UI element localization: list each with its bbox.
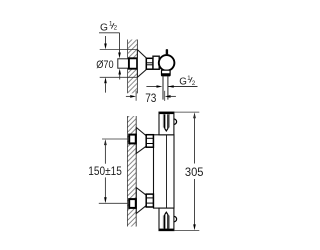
body circle (end view of mixer body) <box>159 55 175 71</box>
svg-text:G: G <box>100 23 108 34</box>
dimension 150±15: top extension line <box>102 138 129 140</box>
label G1/2 (right, outlet thread) <box>179 76 196 88</box>
svg-text:G: G <box>179 76 187 87</box>
dia 70 top extension line <box>100 49 138 51</box>
top inlet: hex nut <box>129 135 136 144</box>
dia 70 dimension: top arrow <box>104 36 107 49</box>
top inlet: knurled ring <box>146 135 153 148</box>
dimension 305: bottom extension line <box>174 230 199 232</box>
dia 70 bottom extension line <box>100 76 138 78</box>
socket piece (side view) <box>153 56 160 69</box>
dimension 73: wall extension line <box>135 91 137 101</box>
leader underline (top left G1/2) <box>99 32 120 34</box>
knurled ring (side view) <box>146 58 153 69</box>
dimension 305: top extension line <box>174 111 199 113</box>
escutcheon cone (side view) <box>137 50 146 78</box>
side knob bump (top handle) <box>174 119 177 124</box>
side knob bump (bottom handle) <box>174 216 177 221</box>
outlet collar nut <box>161 70 170 76</box>
up arrow to inlet pipe bottom edge <box>118 69 121 80</box>
dimension 150±15: dim line + arrows <box>104 139 107 203</box>
svg-text:305: 305 <box>185 165 204 179</box>
union hex nut (in wall) <box>129 58 137 68</box>
outlet pipe (shower outlet, downward) <box>163 76 168 100</box>
svg-text:2: 2 <box>114 24 118 31</box>
leader drop line + down arrow to inlet pipe <box>118 33 121 59</box>
outlet pipe centerline <box>164 91 166 101</box>
dia 70 dimension: bottom arrow <box>104 77 107 92</box>
svg-text:150±15: 150±15 <box>88 164 122 178</box>
right-pointing arrow at outlet pipe left edge <box>146 85 162 88</box>
dimension 73: right outside arrow <box>165 95 176 98</box>
dimension 305: dim line + arrows <box>193 112 196 230</box>
wall (top view) <box>128 40 138 94</box>
knob on top of body <box>166 49 168 55</box>
top handle (temperature knob, plan) <box>159 112 174 135</box>
leader line of right G1/2 with left-pointing arrow at outlet pipe <box>168 85 198 88</box>
bottom inlet: knurled ring <box>146 194 153 207</box>
mixer body (plan) <box>154 135 175 208</box>
svg-text:Ø70: Ø70 <box>96 59 113 71</box>
bottom inlet: escutcheon cone <box>136 188 146 214</box>
label G1/2 (top left, inlet thread) <box>100 21 118 34</box>
top inlet: escutcheon cone <box>136 128 146 154</box>
dimension 150±15: bottom extension line <box>99 202 129 204</box>
svg-text:73: 73 <box>145 91 156 105</box>
bottom inlet: hex nut <box>129 199 136 208</box>
dimension 73: left outside arrow <box>126 95 136 98</box>
wall (bottom view) <box>127 116 136 227</box>
inlet pipe stub (behind wall) <box>118 59 129 68</box>
bottom handle (shut-off knob, plan) <box>159 208 174 231</box>
